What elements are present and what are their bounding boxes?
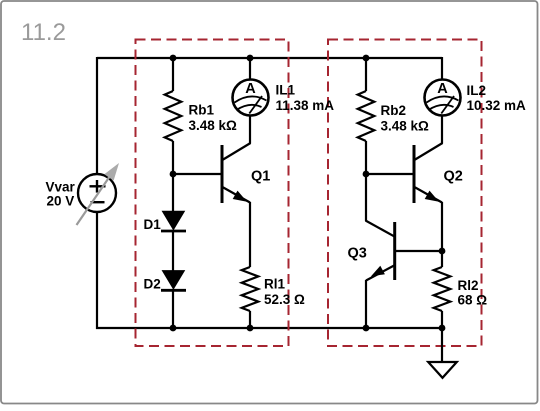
ground symbol <box>428 362 457 378</box>
node: top rail / Rb1 <box>170 55 177 62</box>
svg-text:D2: D2 <box>144 277 161 292</box>
node: bottom rail / diode branch <box>170 325 177 332</box>
svg-text:11.2: 11.2 <box>21 19 66 46</box>
svg-text:3.48 kΩ: 3.48 kΩ <box>381 119 430 134</box>
wire: Rl2 to bottom rail <box>441 311 443 329</box>
node: Q2 base junction <box>363 171 370 178</box>
node: top rail / IL1 <box>247 55 254 62</box>
transistor Q1 <box>222 143 251 203</box>
wire: Q1 emitter to Rl1 <box>249 202 251 267</box>
svg-text:A: A <box>437 81 448 97</box>
svg-text:IL2: IL2 <box>467 83 487 98</box>
svg-text:Rl2: Rl2 <box>458 278 479 293</box>
svg-text:10.32 mA: 10.32 mA <box>467 98 527 113</box>
svg-text:IL1: IL1 <box>276 83 296 98</box>
dashed box: current source 2 <box>328 40 482 347</box>
node: Q1 base junction <box>170 171 177 178</box>
wire: bottom rail <box>96 327 442 329</box>
svg-text:20 V: 20 V <box>47 194 75 209</box>
svg-text:68 Ω: 68 Ω <box>458 293 488 308</box>
transistor Q3 (mirrored) <box>366 221 396 281</box>
wire: Rb2 to Q2 base node and Q3 collector <box>365 141 367 221</box>
wire: ground stem <box>441 328 443 362</box>
node: bottom rail / Rl1 <box>247 325 254 332</box>
svg-text:11.38 mA: 11.38 mA <box>276 98 335 113</box>
resistor Rb1 <box>165 91 182 141</box>
transistor Q2 <box>414 143 443 203</box>
svg-text:Q2: Q2 <box>444 169 463 185</box>
svg-text:Q3: Q3 <box>348 246 367 262</box>
svg-text:Rb2: Rb2 <box>381 103 407 118</box>
node: top rail / Rb2 <box>363 55 370 62</box>
wire: top rail corner down to IL2 <box>441 57 443 80</box>
voltage source Vvar 20 V <box>78 174 116 212</box>
resistor Rb2 <box>358 91 375 141</box>
diode D1 <box>161 211 186 231</box>
wire: Rl1 to bottom rail <box>249 311 251 328</box>
wire: Q2 emitter to Rl2 <box>441 202 443 267</box>
svg-text:A: A <box>245 81 256 97</box>
ammeter IL2 <box>425 80 461 116</box>
svg-text:52.3 Ω: 52.3 Ω <box>264 292 305 307</box>
node: Q3 base / Rl2 junction <box>439 248 446 255</box>
node: bottom rail / Q3 emitter <box>363 325 370 332</box>
dashed box: current source 1 <box>136 40 289 347</box>
wire: Q1 base wire <box>173 173 221 175</box>
svg-text:D1: D1 <box>144 217 162 232</box>
svg-text:Rb1: Rb1 <box>189 103 215 118</box>
wire: top rail from Vvar to IL2 branch <box>97 57 442 59</box>
wire: D2 to bottom rail <box>172 290 174 328</box>
svg-text:3.48 kΩ: 3.48 kΩ <box>189 118 238 133</box>
Vvar variable-arrow (gray) <box>77 163 120 225</box>
wire: Q3 emitter to bottom rail <box>365 280 367 328</box>
wire: top rail to IL1 <box>249 58 251 80</box>
wire: top rail to Rb2 <box>365 58 367 91</box>
svg-text:Q1: Q1 <box>251 169 270 185</box>
resistor Rl1 <box>242 267 259 311</box>
wire: IL2 to Q2 collector <box>441 115 443 144</box>
wire: IL1 to Q1 collector <box>249 115 251 144</box>
svg-text:Rl1: Rl1 <box>264 277 286 292</box>
svg-text:Vvar: Vvar <box>46 180 76 195</box>
wire: left rail lower segment <box>96 212 98 329</box>
resistor Rl2 <box>434 267 451 311</box>
ammeter IL1 <box>233 80 269 116</box>
wire: Rb1 branch top <box>172 58 174 91</box>
diode D2 <box>161 271 186 291</box>
wire: D1 to D2 <box>172 231 174 271</box>
wire: left rail upper segment <box>96 57 98 174</box>
wire: Q3 base wire to Rl2 node <box>395 250 442 252</box>
wire: Rb1 to base node <box>172 141 174 212</box>
node: bottom rail / ground stem <box>439 325 446 332</box>
wire: Q2 base wire <box>366 173 413 175</box>
